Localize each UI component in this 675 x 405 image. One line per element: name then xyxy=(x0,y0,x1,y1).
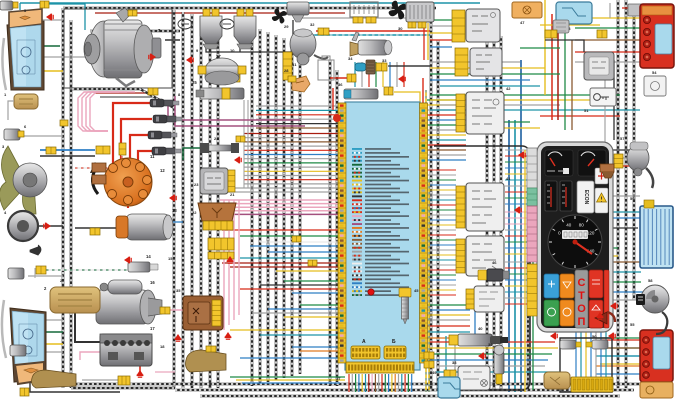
connector white-red drop xyxy=(119,143,126,155)
wire lambda green-white xyxy=(40,269,130,271)
wire bottom-right bus 6 xyxy=(436,371,560,373)
wire bottom-left harness link xyxy=(71,387,175,389)
wire horn bus xyxy=(206,20,293,52)
wire cluster feed 23 xyxy=(505,285,528,287)
wire right horizontal 4 xyxy=(430,109,640,111)
connector wiper strip xyxy=(283,52,292,80)
wire block drop 15 xyxy=(394,374,396,392)
wire to block C22 xyxy=(240,357,338,359)
wire TL drop xyxy=(19,3,21,10)
connector sensor 36 xyxy=(384,87,393,95)
wire brown vertical right xyxy=(571,40,573,130)
diagnostic sensor 34 (blue) xyxy=(355,60,375,74)
interior lamp (tan) xyxy=(186,350,227,372)
wire tail lamp top 2 xyxy=(575,27,645,29)
column switch box 42 xyxy=(466,92,504,134)
ground near 27 xyxy=(186,57,194,64)
radiator fan motor xyxy=(13,163,47,197)
wire block top 3 xyxy=(368,62,370,87)
wire pink riser 4 xyxy=(238,200,240,315)
wire cluster feed 6 xyxy=(505,179,528,181)
wire headlight TL green xyxy=(42,45,60,47)
wire pink loop 3 xyxy=(86,92,119,131)
fuel sender pipe xyxy=(656,312,667,334)
wire fan blue xyxy=(40,149,95,151)
connector fan wire xyxy=(96,146,110,154)
wire bottom-right bus 2 xyxy=(430,347,558,349)
wire block top 8 xyxy=(403,62,405,87)
connector relay 44 strip xyxy=(455,48,468,76)
connector 27b xyxy=(238,66,246,74)
ground below 22 xyxy=(227,256,234,264)
wire pink 5 xyxy=(220,213,338,215)
wire far-right harness 1 xyxy=(617,0,620,388)
wire cluster feed 11 xyxy=(505,211,528,213)
wire 34 to right xyxy=(390,65,430,67)
connector grey 52a xyxy=(553,20,569,33)
ground sensor 36 xyxy=(398,76,406,83)
wire tail lamp top 5 xyxy=(575,61,645,63)
connector heater b xyxy=(418,22,426,28)
connector module 22 xyxy=(203,221,233,230)
wire side lamp xyxy=(8,101,14,120)
wire from block R2 xyxy=(427,104,466,106)
ground mid2 xyxy=(169,195,177,202)
wire from block R10 xyxy=(427,144,466,146)
ground top mid xyxy=(148,54,156,61)
wire to block C20 xyxy=(292,346,338,348)
wire to block A0-1 xyxy=(256,105,338,107)
wire block drop 16 xyxy=(398,374,400,392)
sensor 5 body xyxy=(0,1,13,10)
wire harness right of block 2 xyxy=(437,40,440,390)
headlight L1 (top-left) housing xyxy=(7,21,44,90)
lighter element a xyxy=(560,340,581,349)
connector coil wire xyxy=(90,228,100,235)
wire center harness 5 xyxy=(283,38,286,378)
connector horn 9b xyxy=(212,9,219,16)
wire horn 10 drop xyxy=(239,44,241,52)
wire battery pink xyxy=(80,352,101,360)
wire tail lamp top 4 xyxy=(575,51,645,53)
wire mid-right harness 2 xyxy=(493,32,496,390)
wire pink 3 xyxy=(220,206,338,208)
body outline arc top-left xyxy=(2,38,6,90)
wire right edge 12 xyxy=(600,299,640,301)
wire from block R2-18 xyxy=(427,254,456,256)
connector switch 41b xyxy=(456,239,465,273)
connector horn 10b xyxy=(246,9,253,16)
wire right edge 1 xyxy=(612,149,640,151)
svg-text:35: 35 xyxy=(176,288,181,293)
wire right grey vertical xyxy=(604,80,606,142)
heated rear window 59 xyxy=(640,200,673,268)
svg-text:10: 10 xyxy=(230,48,235,53)
wire block drop 14 xyxy=(391,374,393,392)
wire cluster feed 21 xyxy=(505,273,528,275)
lighter element b xyxy=(586,340,608,349)
wire to block A13 xyxy=(244,183,338,185)
wire block drop 4 xyxy=(358,374,360,392)
svg-text:30: 30 xyxy=(398,26,403,31)
relay 48 (light blue) xyxy=(556,2,592,24)
wire from block R2-5 xyxy=(427,189,456,191)
ignition unit 35 (dark box bottom-left of center) xyxy=(183,296,223,330)
wire top right green xyxy=(520,47,560,49)
wire right edge 14 xyxy=(600,347,640,349)
wire to block A0-3 xyxy=(256,114,338,116)
wire mid-right harness 3 xyxy=(500,36,503,390)
relay box 43 (top right of block) xyxy=(466,9,500,42)
wire lamp stub red xyxy=(622,7,640,9)
wire to block A12 xyxy=(244,179,338,181)
connector lamp 28 xyxy=(288,76,296,82)
svg-text:12: 12 xyxy=(160,168,165,173)
wire cluster feed 5 xyxy=(505,173,528,175)
connector switch 38b xyxy=(444,380,456,388)
horn symbol 9 xyxy=(178,19,192,29)
wire harness right of block 1 xyxy=(430,14,433,390)
wire to block C14 xyxy=(300,304,338,306)
wire spark lead 3 xyxy=(130,135,152,165)
ignition switch 51 housing xyxy=(584,52,614,80)
wire red to pump xyxy=(330,77,348,79)
wire top harness run xyxy=(63,7,436,9)
relay 47 (orange) xyxy=(512,2,542,18)
indicator red dot xyxy=(333,114,341,122)
wire yellow-blue vertical 2 xyxy=(428,180,430,392)
svg-text:45: 45 xyxy=(414,288,419,293)
wire from block R2-25 xyxy=(427,289,456,291)
connector horn 9a xyxy=(203,9,210,16)
wire bottom harness 3 xyxy=(200,395,620,398)
wire headlight BL yellow xyxy=(44,343,63,345)
wire tail lamp bottom 5 xyxy=(596,373,642,375)
rear wiper motor 57 xyxy=(627,142,653,188)
wire block drop 5 xyxy=(361,374,363,392)
wire pink riser 3 xyxy=(233,200,235,320)
wire loom outline right xyxy=(434,146,530,390)
sensor bottom body xyxy=(10,345,26,356)
wire red top-center run xyxy=(316,30,430,32)
wire to block C18 xyxy=(230,329,338,331)
wire block drop 7 xyxy=(368,374,370,392)
alternator G1 xyxy=(84,8,161,86)
wire boot grey xyxy=(82,379,120,381)
sensor 3a body xyxy=(8,268,24,279)
wire from block R2-11 xyxy=(427,219,456,221)
wire top grey run xyxy=(300,17,430,19)
wire cluster feed 17 xyxy=(505,247,528,249)
wire headlight TL yellow xyxy=(42,70,63,72)
wire right horizontal 1 xyxy=(430,94,620,96)
wire from block R2-6 xyxy=(427,194,456,196)
wire from block R2-21 xyxy=(427,269,456,271)
headlight L1 glass xyxy=(10,25,41,87)
wire headlight BL green xyxy=(44,331,63,333)
svg-text:49: 49 xyxy=(432,370,437,375)
wire fusebox riser 5 xyxy=(595,330,597,378)
wire from block R2-2 xyxy=(427,174,456,176)
fuel injector / valve 40 (center bottom) xyxy=(458,334,508,346)
svg-text:120: 120 xyxy=(587,231,595,236)
wire horn xyxy=(35,225,63,227)
svg-text:25: 25 xyxy=(192,80,197,85)
ignition module 22 xyxy=(198,203,236,221)
wire main harness 1 xyxy=(173,10,176,388)
wire right horizontal 7 xyxy=(470,127,540,129)
wire from block R3-2 xyxy=(427,309,470,311)
wire right edge 15 xyxy=(600,355,640,357)
wire cluster feed 3 xyxy=(505,161,528,163)
wire right edge 4 xyxy=(560,211,641,213)
connector pump feed xyxy=(347,74,356,82)
wire red vertical right 2 xyxy=(557,20,559,120)
wire harness mid-right 4 xyxy=(527,150,529,390)
connector headlight L1 xyxy=(40,1,49,8)
horn trumpet icon xyxy=(30,245,41,255)
wire cluster feed 1 xyxy=(505,149,528,151)
ground mid xyxy=(234,157,242,164)
speed sensor 45 (bolt, below block) xyxy=(399,288,411,324)
wire from block R2-3 xyxy=(427,179,456,181)
wire block drop 19 xyxy=(407,374,409,392)
wire right horizontal 2 xyxy=(430,99,600,101)
wire spark lead 4 xyxy=(138,151,152,165)
svg-text:24: 24 xyxy=(214,136,219,141)
wire fuel pump drop 2 xyxy=(454,336,456,390)
wire block drop 2 xyxy=(351,374,353,392)
wire from block R3-5 xyxy=(427,325,470,327)
wire to block A0-4 xyxy=(256,118,338,120)
wire grey pair b xyxy=(222,191,338,193)
voltage regulator 2 xyxy=(50,287,100,313)
ground bottom mid xyxy=(175,334,182,342)
wire cluster feed 20 xyxy=(505,267,528,269)
wire starter pink xyxy=(160,309,218,311)
wire sensor 34 black xyxy=(388,65,430,67)
wire bottom bundle blue xyxy=(242,382,340,384)
wire bottom-right bus 5 xyxy=(436,365,545,367)
horn symbol 10 xyxy=(220,19,234,29)
wire to block C21 xyxy=(300,350,338,352)
wire from block R2-1 xyxy=(427,169,456,171)
wire top teal run xyxy=(20,2,480,4)
connector grey 53 top xyxy=(628,4,642,16)
relay 49 (blue, bottom) xyxy=(443,373,445,375)
distributor towers xyxy=(109,164,118,173)
connector strip block-right xyxy=(420,103,428,363)
wire bottom-right bus 3 xyxy=(430,353,552,355)
wire to block C4 xyxy=(250,245,338,247)
wire sensor 24 green xyxy=(183,148,200,160)
wire fusebox riser 6 xyxy=(600,330,602,378)
wire fusebox riser 3 xyxy=(585,330,587,378)
wire lambda stub xyxy=(34,268,36,278)
cluster top gauges area xyxy=(545,150,606,176)
wire to block C9 xyxy=(276,270,338,272)
wire cluster feed 7 xyxy=(505,185,528,187)
wire harness alternator exit xyxy=(72,89,174,108)
connector wiper rear xyxy=(614,154,623,168)
wire from block R2-15 xyxy=(427,239,456,241)
wire to block A10 xyxy=(244,170,338,172)
wire right edge 3 xyxy=(612,165,630,167)
wire sensor 3 xyxy=(28,275,63,277)
wire far-right harness 2 xyxy=(625,0,628,388)
wire pink riser 1 xyxy=(223,200,225,330)
fuel tank breather (maroon) xyxy=(595,312,607,324)
ground cluster left xyxy=(518,152,526,159)
wire right grey xyxy=(612,195,640,197)
svg-text:51: 51 xyxy=(584,108,589,113)
wire to block C13 xyxy=(292,292,338,294)
svg-text:36: 36 xyxy=(338,82,343,87)
wire from block R9 xyxy=(427,139,466,141)
wire block drop 13 xyxy=(388,374,390,392)
wire main harness 5 xyxy=(209,18,212,388)
wire loom outline bottom-right xyxy=(560,338,612,392)
sensor 26 body xyxy=(206,73,236,82)
cluster warning lamp matrix xyxy=(544,270,609,328)
wire bottom harness 1 xyxy=(63,383,640,386)
svg-text:А: А xyxy=(362,339,366,345)
wire from block R2-9 xyxy=(427,209,456,211)
svg-text:16: 16 xyxy=(150,280,155,285)
fuse box 47 strip xyxy=(571,377,613,392)
headlight L1 bulb symbols xyxy=(21,47,31,57)
connector relay 23 xyxy=(228,170,235,192)
relay 49 (blue box bottom center) xyxy=(438,377,460,398)
wire from block R2-19 xyxy=(427,259,456,261)
wire from block R3-3 xyxy=(427,314,470,316)
wire cluster feed 25 xyxy=(505,297,528,299)
small white box 56 xyxy=(644,76,666,96)
connector valve 40 xyxy=(449,335,458,345)
tail lamp assembly bottom-right xyxy=(640,330,673,398)
wire from block R2-8 xyxy=(427,204,456,206)
wire harness top-left xyxy=(90,30,180,32)
connector switch 41 xyxy=(456,186,465,228)
wire to block A8 xyxy=(244,162,338,164)
wiper motor 31 xyxy=(290,29,328,65)
svg-text:39: 39 xyxy=(488,342,493,347)
wire from block R2-26 xyxy=(427,294,456,296)
wire riser xyxy=(243,100,245,188)
connector resistor b xyxy=(366,17,376,23)
wire left harness 2 xyxy=(70,20,73,388)
wire spark lead 2 xyxy=(121,119,152,165)
wire center harness 1 xyxy=(251,26,254,386)
svg-text:58: 58 xyxy=(648,278,653,283)
svg-text:41: 41 xyxy=(506,176,511,181)
tan box near fuse strip xyxy=(544,372,570,389)
wire far-right harness 3 xyxy=(633,10,636,300)
side repeater lamp (tan) xyxy=(14,94,38,109)
wire top red run xyxy=(95,12,345,14)
svg-text:47: 47 xyxy=(520,20,525,25)
wire block top 4 xyxy=(375,62,377,87)
connector pair b xyxy=(424,361,434,368)
wire battery to starter xyxy=(75,300,112,342)
wire block drop 9 xyxy=(374,374,376,392)
svg-text:Б: Б xyxy=(392,339,396,345)
ignition key symbol 52 xyxy=(590,88,616,106)
connector starter wire xyxy=(160,307,170,314)
wire heater red drop xyxy=(423,23,425,60)
wire from block R11 xyxy=(427,149,466,151)
svg-text:40: 40 xyxy=(478,326,483,331)
wire to block A5 xyxy=(244,149,338,151)
wire from block R2-12 xyxy=(427,224,456,226)
ground lighter b xyxy=(608,333,616,340)
tail lamp assembly top-right xyxy=(640,4,674,68)
wire to block C10 xyxy=(284,280,338,282)
washer reservoir outline xyxy=(318,56,334,80)
cluster ECON gauge xyxy=(577,181,594,213)
wire right edge 7 xyxy=(600,255,618,257)
wire cluster feed 26 xyxy=(505,303,528,305)
interior lamp left (tan boot) xyxy=(32,370,77,388)
wire teal vertical xyxy=(514,120,516,392)
column switch box 41b lower xyxy=(466,236,504,276)
wire center harness 4 xyxy=(275,35,278,380)
wire alternator black xyxy=(165,39,180,41)
wire left harness 1 xyxy=(62,8,65,388)
svg-text:80: 80 xyxy=(579,223,585,228)
connector 32 xyxy=(318,28,329,35)
connector unit 35 xyxy=(212,300,221,326)
connector pair a xyxy=(424,352,434,359)
ground near headlight L1 xyxy=(46,14,54,21)
connector resistor a xyxy=(353,17,363,23)
distributor rotation arrow xyxy=(92,168,98,194)
wire white-red drop xyxy=(121,144,123,166)
relay box 44 xyxy=(470,48,502,76)
connector bottom-left corner xyxy=(20,388,29,396)
wire from block R2-10 xyxy=(427,214,456,216)
wire from block R3-4 xyxy=(427,319,470,321)
wire red vertical at block xyxy=(422,78,424,330)
connector strip block bottom xyxy=(346,362,414,373)
wire bottom-right bus 4 xyxy=(430,359,548,361)
spark plugs xyxy=(150,99,179,107)
wire headlight TL teal xyxy=(44,4,85,30)
connector fan xyxy=(46,147,56,154)
wire battery ground xyxy=(139,344,141,372)
svg-text:33: 33 xyxy=(382,58,387,63)
svg-text:27: 27 xyxy=(216,54,221,59)
connector left a xyxy=(60,120,68,126)
connector relay 43 strip xyxy=(452,10,465,42)
svg-text:13: 13 xyxy=(172,208,177,213)
wire right upper 4 xyxy=(430,79,530,81)
connector switch 36 xyxy=(466,289,474,309)
wire from block R2-22 xyxy=(427,274,456,276)
wire to block C16 xyxy=(252,312,338,314)
svg-text:50: 50 xyxy=(592,334,597,339)
ground at horn xyxy=(43,223,51,230)
wire blue vertical 1 xyxy=(508,120,510,392)
connector mid a xyxy=(236,136,245,142)
wire coil black xyxy=(75,227,118,229)
svg-text:ECON: ECON xyxy=(583,190,589,205)
wire to block C17 xyxy=(284,316,338,318)
wire block top 5 xyxy=(382,62,384,87)
wire right upper 1 xyxy=(430,61,520,63)
wire from block R3 xyxy=(427,109,466,111)
wire pink 1 xyxy=(220,199,338,201)
